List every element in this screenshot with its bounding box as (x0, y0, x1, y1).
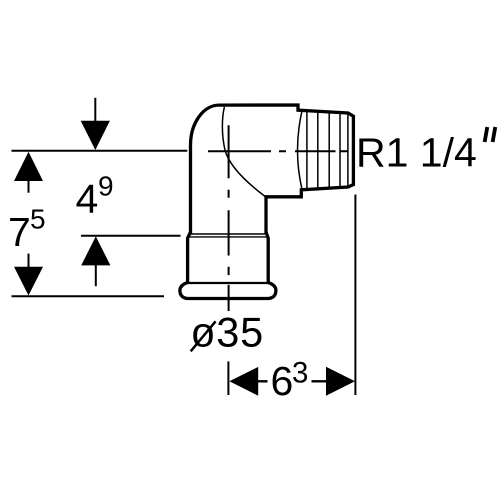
svg-text:9: 9 (98, 171, 114, 202)
svg-text:4: 4 (76, 176, 99, 222)
svg-text:6: 6 (271, 358, 294, 404)
svg-text:7: 7 (8, 209, 31, 255)
svg-text:35: 35 (216, 309, 264, 356)
svg-text:5: 5 (30, 204, 46, 235)
svg-text:o: o (192, 308, 215, 355)
svg-text:R1 1/4: R1 1/4 (356, 130, 477, 176)
svg-text:3: 3 (292, 356, 308, 389)
